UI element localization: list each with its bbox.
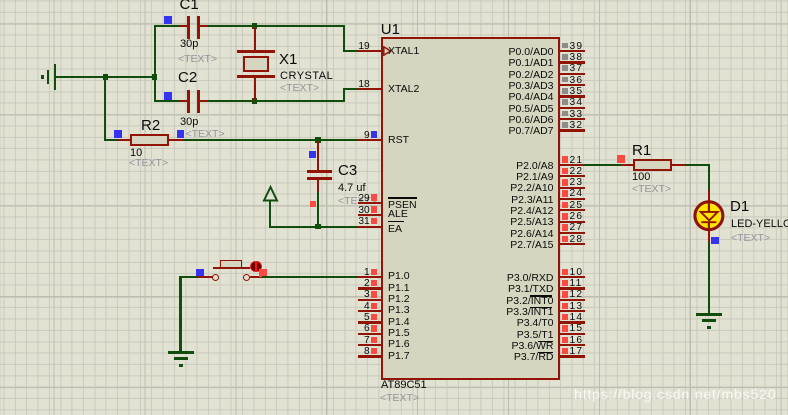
pin name P2.2/A10 xyxy=(464,183,554,194)
pin 7 number xyxy=(340,336,370,346)
wire junction A down to R2 xyxy=(104,77,106,141)
property text U1 xyxy=(380,393,419,404)
label C1 xyxy=(180,0,199,12)
pin 12 number xyxy=(570,290,584,300)
value LED-YELLOW xyxy=(731,219,788,230)
pin name P1.5 xyxy=(388,328,410,339)
pin 36 number xyxy=(570,76,584,86)
pin 23 red marker xyxy=(562,179,569,186)
pin name P0.1/AD1 xyxy=(464,58,554,69)
wire junction A to C1/C2 branch xyxy=(107,76,156,78)
capacitor C3 xyxy=(0,0,788,1)
pin 7 marker square xyxy=(371,337,377,343)
pin 15 red marker xyxy=(562,325,569,332)
pin name P0.3/AD3 xyxy=(464,81,554,92)
pin name RST xyxy=(388,135,409,146)
pin 9 stub (left) xyxy=(358,139,382,141)
wire C2 right to junction D xyxy=(208,100,256,102)
wire C2 left xyxy=(154,100,181,102)
pin name P1.2 xyxy=(388,294,410,305)
pin 14 stub (right) xyxy=(560,321,585,323)
pin 21 number xyxy=(570,156,584,166)
pin 27 number xyxy=(570,223,584,233)
pin 27 red marker xyxy=(562,224,569,231)
button red state indicator xyxy=(250,261,262,273)
pin 31 number xyxy=(340,217,370,227)
pin 19 stub (left) xyxy=(358,50,382,52)
pin 5 marker square xyxy=(371,314,377,320)
pin 4 number xyxy=(340,302,370,312)
value 4.7 uf xyxy=(338,183,366,194)
pin 31 stub (left) xyxy=(358,226,382,228)
D1 blue marker xyxy=(711,237,719,245)
pin name XTAL1 xyxy=(388,46,419,57)
pin 26 red marker xyxy=(562,213,569,220)
pin name P2.4/A12 xyxy=(464,206,554,217)
pin 38 number xyxy=(570,53,584,63)
pin 33 gray marker xyxy=(562,111,568,117)
pin 22 number xyxy=(570,167,584,177)
power terminal arrow (up) xyxy=(260,184,282,204)
pin 14 red marker xyxy=(562,314,569,321)
pin 1 number xyxy=(340,268,370,278)
pin 6 number xyxy=(340,324,370,334)
pin 10 stub (right) xyxy=(560,276,585,278)
pin name P1.3 xyxy=(388,305,410,316)
node junction E (318,140) xyxy=(315,137,320,142)
wire junction C to pin19 corner xyxy=(256,25,345,27)
pin 16 number xyxy=(570,336,584,346)
pin 1 marker square xyxy=(371,269,377,275)
wire vertical C1/C2 left branch xyxy=(154,25,156,102)
R2 blue marker right xyxy=(177,130,185,138)
pin 27 stub (right) xyxy=(560,232,585,234)
pin 28 red marker xyxy=(562,236,569,243)
pin name ALE xyxy=(388,209,408,220)
pin name XTAL2 xyxy=(388,84,419,95)
pin name P2.6/A14 xyxy=(464,229,554,240)
pin 17 number xyxy=(570,347,584,357)
pin 9 number xyxy=(340,131,370,141)
wire C1 right to junction C xyxy=(208,25,256,27)
pin 29 number xyxy=(340,194,370,204)
pin 18 stub (left) xyxy=(358,88,382,90)
property text D1 xyxy=(731,233,770,244)
wire from power symbol to junction xyxy=(55,76,107,78)
wire R1 to LED corner xyxy=(685,164,710,166)
pin 3 number xyxy=(340,290,370,300)
pin 36 gray marker xyxy=(562,77,568,83)
resistor R2 xyxy=(0,0,788,1)
C1 blue marker xyxy=(164,16,172,24)
ground symbol bottom-left xyxy=(0,0,788,1)
C3 blue marker xyxy=(309,151,316,158)
wire pin21 to R1 xyxy=(584,164,621,166)
pin name P0.4/AD4 xyxy=(464,92,554,103)
pin 25 stub (right) xyxy=(560,209,585,211)
pin name P1.6 xyxy=(388,339,410,350)
pin 4 stub (left) xyxy=(358,310,382,312)
pin 35 gray marker xyxy=(562,88,568,94)
pin 2 number xyxy=(340,279,370,289)
pin 24 stub (right) xyxy=(560,198,585,200)
pin name P3.1/TXD xyxy=(464,284,554,295)
pin 34 gray marker xyxy=(562,99,568,105)
node junction D (254.5,101) xyxy=(252,98,257,103)
node junction A (105.5,77) xyxy=(103,74,108,79)
pin 36 stub (right) xyxy=(560,84,585,86)
pin 37 stub (right) xyxy=(560,73,585,75)
value 30p (C2) xyxy=(180,117,198,128)
pin name P2.0/A8 xyxy=(464,161,554,172)
pin 28 stub (right) xyxy=(560,243,585,245)
pin name P2.3/A11 xyxy=(464,195,554,206)
ground terminal (left-pointing) power symbol xyxy=(0,0,788,1)
pin 29 marker square xyxy=(371,194,377,200)
pin 8 number xyxy=(340,347,370,357)
pin 16 red marker xyxy=(562,337,569,344)
pin 21 stub (right) xyxy=(560,164,585,166)
pin 17 stub (right) xyxy=(560,355,585,357)
property text C3 xyxy=(338,196,377,207)
pin 14 number xyxy=(570,313,584,323)
pin name P2.5/A13 xyxy=(464,217,554,228)
label C3 xyxy=(338,163,357,178)
overline RD xyxy=(538,352,553,353)
LED D1 xyxy=(0,0,788,1)
pin 38 gray marker xyxy=(562,54,568,60)
button red marker xyxy=(259,269,267,277)
C2 blue marker xyxy=(164,92,172,100)
label D1 xyxy=(730,199,749,214)
pin 35 stub (right) xyxy=(560,95,585,97)
pin 35 number xyxy=(570,87,584,97)
pin 24 number xyxy=(570,189,584,199)
value 100 xyxy=(632,172,650,183)
pin name P1.0 xyxy=(388,271,410,282)
pin 5 number xyxy=(340,313,370,323)
C3 red marker xyxy=(310,201,317,208)
pin 32 stub (right) xyxy=(560,129,585,131)
pin 6 marker square xyxy=(371,325,377,331)
pin 38 stub (right) xyxy=(560,61,585,63)
pin 30 marker square xyxy=(371,206,377,212)
node junction C (254.5,26) xyxy=(252,23,257,28)
pin name P0.2/AD2 xyxy=(464,70,554,81)
pin 1 stub (left) xyxy=(358,276,382,278)
wire LED to ground xyxy=(708,242,710,315)
value 30p (C1) xyxy=(180,39,198,50)
property text C2 xyxy=(186,129,225,140)
label X1 xyxy=(279,52,297,67)
pin 34 stub (right) xyxy=(560,107,585,109)
pin 37 number xyxy=(570,64,584,74)
wire C1 left xyxy=(154,25,180,27)
pin name P3.3/INT1 xyxy=(464,307,554,318)
pin 29 stub (left) xyxy=(358,202,382,204)
pin name P3.7/RD xyxy=(464,352,554,363)
button blue marker xyxy=(196,269,204,276)
pin name P1.4 xyxy=(388,317,410,328)
pin 3 marker square xyxy=(371,291,377,297)
R2 blue marker left xyxy=(114,130,122,138)
pin 23 number xyxy=(570,178,584,188)
pin 23 stub (right) xyxy=(560,187,585,189)
pin 32 gray marker xyxy=(562,122,568,128)
pin 25 number xyxy=(570,201,584,211)
pin name PSEN with overline xyxy=(388,200,417,211)
label C2 xyxy=(178,70,197,85)
pin 15 number xyxy=(570,324,584,334)
wire power arrow stem xyxy=(269,201,271,228)
IC U1 AT89C51 body xyxy=(381,37,561,379)
pin 11 number xyxy=(570,279,583,289)
pin 33 stub (right) xyxy=(560,118,585,120)
wire power arrow to junction F and EA pin xyxy=(269,226,358,228)
pin name P0.6/AD6 xyxy=(464,115,554,126)
R1 red marker xyxy=(617,155,625,163)
pin 32 number xyxy=(570,121,584,131)
pin 22 red marker xyxy=(562,168,569,175)
property text R1 xyxy=(632,184,671,195)
pin 34 number xyxy=(570,98,584,108)
pin 12 red marker xyxy=(562,291,569,298)
resistor R1 xyxy=(0,0,788,1)
property text R2 xyxy=(129,158,168,169)
pin 37 gray marker xyxy=(562,65,568,71)
pin 6 stub (left) xyxy=(358,333,382,335)
crystal X1 xyxy=(0,0,788,1)
value 10 (R2) xyxy=(130,148,142,159)
pin name P3.2/INT0 xyxy=(464,296,554,307)
pin 26 number xyxy=(570,212,584,222)
watermark xyxy=(574,388,776,402)
wire ground to button xyxy=(179,276,199,278)
wire C3 bottom to EA net xyxy=(317,192,319,228)
value CRYSTAL xyxy=(280,71,333,82)
pin 22 stub (right) xyxy=(560,175,585,177)
capacitor C1 xyxy=(0,0,788,1)
XTAL1 clock input arrow xyxy=(383,46,393,56)
pin 28 number xyxy=(570,235,584,245)
pin 39 gray marker xyxy=(562,43,568,49)
pin 10 red marker xyxy=(562,269,569,276)
pin 13 number xyxy=(570,302,584,312)
ground symbol bottom-right xyxy=(0,0,788,1)
pin name P1.1 xyxy=(388,283,410,294)
pin 19 number xyxy=(340,42,370,52)
label R1 xyxy=(632,143,651,158)
pin 31 marker square xyxy=(371,218,377,224)
pin 10 number xyxy=(570,268,584,278)
pin 13 red marker xyxy=(562,303,569,310)
pin 39 stub (right) xyxy=(560,50,585,52)
pin 11 red marker xyxy=(562,280,569,287)
pin name P3.6/WR xyxy=(464,341,554,352)
pin name P0.7/AD7 xyxy=(464,126,554,137)
value AT89C51 xyxy=(381,380,427,391)
pin 33 number xyxy=(570,110,584,120)
pin name P3.0/RXD xyxy=(464,273,554,284)
pin 8 marker square xyxy=(371,348,377,354)
overline INT0 xyxy=(530,295,553,296)
pin 18 number xyxy=(340,80,370,90)
pin 2 stub (left) xyxy=(358,287,382,289)
wire R2 to RST pin 9 xyxy=(183,139,359,141)
pin 30 stub (left) xyxy=(358,214,382,216)
label U1 xyxy=(381,22,400,37)
node junction B (154.5,77) xyxy=(152,74,157,79)
pin name P2.7/A15 xyxy=(464,240,554,251)
pin name P0.0/AD0 xyxy=(464,47,554,58)
pin 3 stub (left) xyxy=(358,299,382,301)
overline INT1 xyxy=(530,307,553,308)
pin 4 marker square xyxy=(371,303,377,309)
pin 2 marker square xyxy=(371,280,377,286)
pin name P1.7 xyxy=(388,351,410,362)
capacitor C2 xyxy=(0,0,788,1)
pin name P0.5/AD5 xyxy=(464,104,554,115)
pin 16 stub (right) xyxy=(560,344,585,346)
pin 9 marker square xyxy=(371,131,377,137)
node junction F (318,227) xyxy=(315,224,320,229)
property text X1 xyxy=(280,83,319,94)
overline WR xyxy=(538,341,553,342)
pin 25 red marker xyxy=(562,202,569,209)
pin 21 red marker xyxy=(562,156,569,163)
push button switch xyxy=(0,0,788,1)
pin name EA with overline xyxy=(388,224,402,235)
pin 5 stub (left) xyxy=(358,321,382,323)
pin 30 number xyxy=(340,206,370,216)
pin 11 stub (right) xyxy=(560,287,585,289)
pin 15 stub (right) xyxy=(560,333,585,335)
wire junction D to pin18 corner xyxy=(256,100,345,102)
property text C1 xyxy=(178,54,217,65)
pin 39 number xyxy=(570,42,584,52)
pin 17 red marker xyxy=(562,348,569,355)
pin 7 stub (left) xyxy=(358,344,382,346)
pin name P2.1/A9 xyxy=(464,172,554,183)
pin 13 stub (right) xyxy=(560,310,585,312)
pin 24 red marker xyxy=(562,190,569,197)
pin name P3.5/T1 xyxy=(464,330,554,341)
pin 8 stub (left) xyxy=(358,355,382,357)
pin 26 stub (right) xyxy=(560,221,585,223)
label R2 xyxy=(141,118,160,133)
wire button to P1.0 xyxy=(262,276,358,278)
pin name P3.4/T0 xyxy=(464,318,554,329)
pin 12 stub (right) xyxy=(560,299,585,301)
